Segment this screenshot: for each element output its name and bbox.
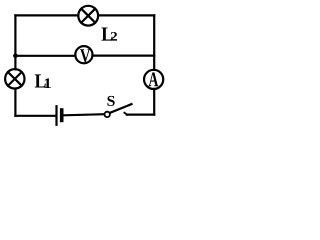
switch fixed contact hook <box>124 113 127 115</box>
wire lamp L2 to top-right corner <box>98 14 154 16</box>
wire lamp L1 to bottom-left corner <box>14 89 16 116</box>
switch S blade <box>110 104 132 113</box>
wire ammeter to bottom-right corner <box>153 89 155 115</box>
label L1 <box>35 74 51 88</box>
wire battery to switch <box>64 114 105 115</box>
wire bottom-left corner to battery <box>15 115 55 117</box>
label S <box>107 96 114 106</box>
lamp L1 <box>5 69 24 88</box>
wire voltmeter branch right segment to T junction <box>93 54 155 56</box>
wire voltmeter branch left segment <box>15 55 75 57</box>
node junction dot on left vertical <box>13 54 18 59</box>
label L2 <box>102 28 118 41</box>
switch S pivot contact <box>105 112 110 117</box>
lamp L2 <box>78 6 98 26</box>
battery long plate <box>55 106 57 125</box>
wire switch to bottom-right corner <box>127 113 154 115</box>
wire right vertical, corner to ammeter <box>153 15 155 70</box>
voltmeter V <box>75 46 92 63</box>
wire top-left corner to lamp L2 <box>15 14 78 16</box>
battery short plate <box>60 110 64 120</box>
ammeter A <box>144 70 163 89</box>
wire left vertical, corner to lamp L1 <box>14 15 16 69</box>
